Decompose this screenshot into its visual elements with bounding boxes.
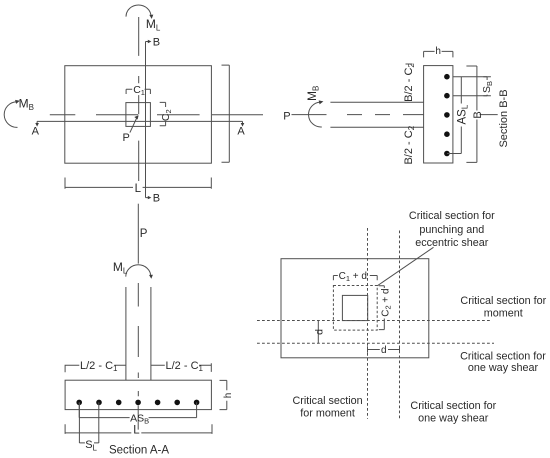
dimension L/2-C1 right bbox=[151, 363, 211, 372]
section line B-B bbox=[146, 40, 152, 200]
load P leader bbox=[130, 115, 139, 132]
dimension B bbox=[466, 66, 477, 162]
svg-text:moment: moment bbox=[484, 308, 523, 320]
moment arrow ML (plan) bbox=[126, 5, 153, 19]
label h (section B-B) bbox=[435, 46, 441, 57]
label ML (section A-A) bbox=[113, 260, 128, 275]
moment critical section horizontal bbox=[257, 320, 491, 322]
svg-text:SB: SB bbox=[481, 81, 494, 93]
label h (section A-A) bbox=[223, 393, 234, 399]
dimension L (plan) bbox=[65, 178, 212, 189]
load line P (section A-A) bbox=[137, 204, 139, 264]
note critical section one way shear right bbox=[460, 351, 546, 375]
label P (section B-B) bbox=[283, 110, 290, 122]
label B/2-C2 lower bbox=[403, 125, 416, 164]
svg-text:Critical section for: Critical section for bbox=[460, 351, 546, 363]
dimension SB bbox=[483, 77, 491, 96]
label SB bbox=[481, 81, 494, 93]
svg-text:ML: ML bbox=[113, 260, 128, 275]
label SL bbox=[85, 439, 97, 452]
svg-text:P: P bbox=[283, 110, 290, 122]
section line A-A bbox=[35, 121, 244, 126]
moment critical section vertical bbox=[367, 228, 369, 419]
svg-text:Critical section for: Critical section for bbox=[410, 400, 496, 412]
svg-text:ASL: ASL bbox=[456, 104, 469, 124]
svg-text:Section A-A: Section A-A bbox=[109, 444, 169, 456]
label B (section B-B) bbox=[472, 111, 484, 118]
rebar connector lines (section B-B) bbox=[447, 77, 487, 154]
one-way shear critical section horizontal bbox=[257, 342, 494, 344]
section A-A centerline bbox=[137, 283, 139, 430]
label P (plan) bbox=[123, 132, 130, 144]
label B top bbox=[153, 36, 160, 48]
note punching and eccentric shear bbox=[409, 210, 495, 249]
dimension SL bbox=[79, 402, 98, 443]
critical plan column bbox=[342, 295, 367, 320]
rebar dots (section B-B) bbox=[444, 74, 450, 156]
label L (plan) bbox=[135, 183, 142, 195]
svg-text:Critical section: Critical section bbox=[292, 395, 362, 407]
label MB (plan) bbox=[19, 97, 34, 112]
label L/2-C1 left bbox=[80, 360, 118, 373]
plan column bbox=[126, 103, 150, 127]
svg-text:L/2 - C1: L/2 - C1 bbox=[166, 360, 204, 373]
dimension L/2-C1 left bbox=[65, 365, 126, 373]
svg-text:one way shear: one way shear bbox=[418, 413, 489, 425]
label B/2-C2 upper bbox=[403, 63, 416, 102]
label C2+d bbox=[380, 288, 392, 316]
dimension C1+d bbox=[333, 276, 377, 281]
plan footing outline bbox=[65, 66, 212, 164]
title Section A-A bbox=[109, 444, 169, 456]
svg-text:Critical section for: Critical section for bbox=[409, 210, 495, 222]
label B bottom bbox=[153, 193, 160, 205]
punching critical section square bbox=[333, 286, 377, 331]
plan vertical centerline bbox=[138, 17, 140, 181]
dimension h (section B-B) bbox=[424, 51, 453, 57]
svg-text:MB: MB bbox=[19, 97, 34, 112]
note critical section one way shear bottom bbox=[410, 400, 496, 424]
svg-text:ML: ML bbox=[146, 17, 161, 32]
label L (section A-A) bbox=[133, 425, 140, 437]
load line P (section B-B) bbox=[292, 114, 327, 116]
svg-text:B: B bbox=[153, 36, 160, 48]
dimension d horizontal bbox=[368, 346, 400, 352]
label A left bbox=[32, 126, 40, 138]
svg-text:h: h bbox=[223, 393, 234, 399]
svg-text:B/2 - C2: B/2 - C2 bbox=[403, 63, 416, 102]
label ASB bbox=[130, 412, 149, 425]
label ML (plan) bbox=[146, 17, 161, 32]
svg-text:B/2 - C2: B/2 - C2 bbox=[403, 125, 416, 164]
note critical section for moment bottom bbox=[292, 395, 362, 419]
label C1 bbox=[133, 84, 145, 97]
svg-text:L/2 - C1: L/2 - C1 bbox=[80, 360, 118, 373]
svg-text:ASB: ASB bbox=[130, 412, 149, 425]
svg-text:Section B-B: Section B-B bbox=[498, 89, 510, 147]
label ASL bbox=[456, 104, 469, 124]
label P (section A-A) bbox=[140, 228, 148, 240]
section A-A footing outline bbox=[65, 380, 211, 409]
dimension ASL bbox=[460, 77, 462, 154]
svg-text:P: P bbox=[140, 228, 148, 240]
dimension L (section A-A) bbox=[65, 424, 212, 434]
svg-text:h: h bbox=[435, 46, 441, 57]
label d vertical bbox=[314, 329, 326, 335]
critical plan footing outline bbox=[281, 259, 429, 358]
svg-text:for moment: for moment bbox=[300, 408, 355, 420]
svg-text:L: L bbox=[135, 183, 142, 195]
svg-text:B: B bbox=[153, 193, 160, 205]
moment arrow ML (section A-A) bbox=[126, 265, 153, 279]
dimension C1 bbox=[126, 89, 150, 94]
section B-B footing outline bbox=[424, 66, 453, 163]
svg-text:L: L bbox=[133, 425, 140, 437]
label d horizontal bbox=[381, 345, 387, 356]
section A-A column bbox=[126, 287, 151, 380]
svg-text:one way shear: one way shear bbox=[468, 362, 539, 374]
svg-text:eccentric shear: eccentric shear bbox=[415, 237, 489, 249]
svg-text:P: P bbox=[123, 132, 130, 144]
label A right bbox=[237, 126, 245, 138]
svg-text:Critical section for: Critical section for bbox=[460, 295, 546, 307]
dimension C2+d bbox=[379, 286, 385, 330]
dimension h (section A-A) bbox=[220, 380, 227, 409]
svg-text:B: B bbox=[472, 111, 484, 118]
svg-text:C1: C1 bbox=[133, 84, 145, 97]
svg-text:A: A bbox=[237, 126, 245, 138]
dimension ASB bbox=[79, 402, 196, 417]
plan horizontal centerline bbox=[50, 114, 263, 116]
one-way shear critical section vertical bbox=[399, 231, 401, 419]
leader punching note bbox=[377, 247, 433, 285]
dimension d vertical bbox=[317, 321, 319, 344]
label L/2-C1 right bbox=[166, 360, 204, 373]
rebar dots (section A-A) bbox=[76, 400, 199, 406]
label C1+d bbox=[339, 271, 367, 283]
moment arrow MB (plan) bbox=[4, 100, 20, 128]
svg-text:C2 + d: C2 + d bbox=[380, 288, 392, 316]
svg-text:C2: C2 bbox=[160, 109, 173, 121]
note critical section for moment right bbox=[460, 295, 546, 320]
svg-text:MB: MB bbox=[305, 86, 320, 101]
label C2 bbox=[160, 109, 173, 121]
label MB (section B-B) bbox=[305, 86, 320, 101]
svg-text:punching and: punching and bbox=[419, 224, 484, 236]
section B-B column bbox=[330, 102, 423, 127]
svg-text:SL: SL bbox=[85, 439, 97, 452]
section B-B centerline bbox=[347, 114, 498, 116]
svg-text:d: d bbox=[381, 345, 387, 356]
svg-text:C1 + d: C1 + d bbox=[339, 271, 367, 283]
svg-text:d: d bbox=[314, 329, 326, 335]
moment arrow MB (section B-B) bbox=[309, 100, 324, 127]
title Section B-B bbox=[498, 89, 510, 147]
dimension C2 bbox=[160, 102, 166, 125]
svg-text:A: A bbox=[32, 126, 40, 138]
dimension bracket B (plan right) bbox=[222, 65, 230, 162]
